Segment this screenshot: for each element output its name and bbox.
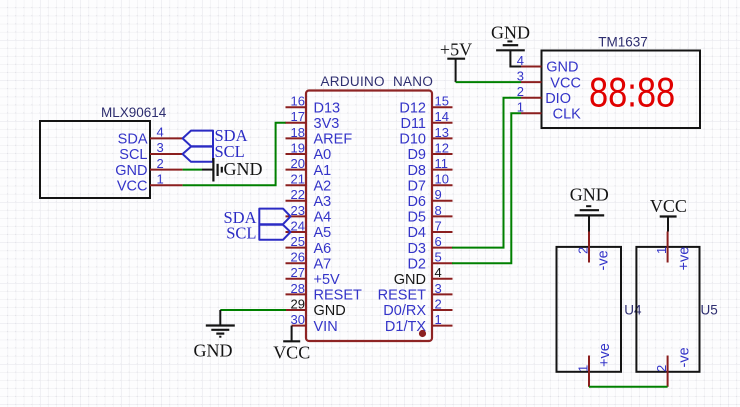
svg-text:2: 2 — [654, 365, 669, 372]
svg-text:-ve: -ve — [677, 347, 693, 367]
svg-text:11: 11 — [435, 156, 449, 171]
svg-text:GND: GND — [491, 23, 530, 43]
svg-text:18: 18 — [291, 125, 305, 140]
svg-text:SCL: SCL — [119, 147, 147, 163]
svg-text:21: 21 — [291, 172, 305, 187]
svg-text:26: 26 — [291, 250, 305, 265]
ground flag GND (above TM1637) — [491, 23, 530, 67]
pin 1 D1/TX of ARDUINO NANO — [385, 312, 453, 335]
svg-text:GND: GND — [314, 303, 346, 319]
svg-text:4: 4 — [435, 265, 442, 280]
svg-text:3: 3 — [435, 281, 442, 296]
svg-text:VCC: VCC — [650, 196, 687, 216]
svg-text:D0/RX: D0/RX — [383, 303, 426, 319]
svg-text:U5: U5 — [701, 303, 718, 318]
net port SCL (Arduino A5) — [226, 224, 290, 243]
pin 3 VCC of TM1637 — [517, 69, 581, 92]
svg-text:22: 22 — [291, 187, 305, 202]
svg-text:30: 30 — [291, 312, 305, 327]
svg-text:D11: D11 — [400, 116, 426, 132]
svg-text:24: 24 — [291, 218, 305, 233]
svg-text:27: 27 — [291, 265, 305, 280]
pin 22 A3 of ARDUINO NANO — [286, 187, 332, 210]
power flag +5V — [440, 40, 472, 83]
svg-text:GND: GND — [194, 341, 233, 361]
pin 17 3V3 of ARDUINO NANO — [286, 109, 340, 132]
svg-text:+ve: +ve — [597, 343, 613, 367]
wire MLX GND pin to ground flag — [183, 169, 202, 171]
svg-text:2: 2 — [435, 296, 442, 311]
svg-text:D12: D12 — [399, 100, 426, 116]
svg-text:MLX90614: MLX90614 — [101, 105, 167, 120]
svg-text:A4: A4 — [314, 210, 332, 226]
svg-text:RESET: RESET — [378, 288, 426, 304]
svg-text:D3: D3 — [407, 241, 426, 257]
svg-text:4: 4 — [517, 53, 524, 68]
pin 25 A6 of ARDUINO NANO — [286, 234, 332, 257]
origin marker dot (Arduino bottom-right) — [419, 330, 426, 337]
svg-text:1: 1 — [654, 247, 669, 254]
pin 1 +ve of U4 (bottom) — [576, 343, 614, 387]
svg-text:3V3: 3V3 — [314, 116, 340, 132]
svg-text:7: 7 — [435, 218, 442, 233]
pin 24 A5 of ARDUINO NANO — [286, 218, 332, 241]
svg-text:D10: D10 — [399, 132, 426, 148]
pin 2 DIO of TM1637 — [517, 84, 571, 107]
svg-text:A2: A2 — [314, 178, 332, 194]
svg-text:RESET: RESET — [314, 288, 362, 304]
pin 2 -ve of U4 (top) — [576, 232, 612, 271]
net port SCL (MLX side) — [183, 142, 245, 162]
svg-text:VIN: VIN — [314, 319, 338, 335]
svg-text:D7: D7 — [407, 178, 426, 194]
svg-text:9: 9 — [435, 187, 442, 202]
svg-text:A0: A0 — [314, 147, 332, 163]
pin 2 GND of MLX90614 — [115, 156, 182, 179]
pin 4 GND of ARDUINO NANO — [394, 265, 453, 288]
ground flag GND (sideways, at MLX pin 2) — [202, 158, 263, 182]
svg-text:D2: D2 — [407, 256, 426, 272]
svg-text:A5: A5 — [314, 225, 332, 241]
pin 7 D4 of ARDUINO NANO — [407, 218, 452, 241]
svg-text:VCC: VCC — [273, 343, 310, 363]
pin 14 D11 of ARDUINO NANO — [400, 109, 452, 132]
svg-text:GND: GND — [394, 272, 426, 288]
svg-text:A3: A3 — [314, 194, 332, 210]
pin 1 +ve of U5 (top) — [654, 232, 693, 271]
IC U? ARDUINO NANO — [306, 74, 433, 341]
svg-text:2: 2 — [576, 247, 591, 254]
svg-text:25: 25 — [291, 234, 305, 249]
svg-text:-ve: -ve — [596, 250, 612, 270]
svg-text:D4: D4 — [407, 225, 426, 241]
svg-text:GND: GND — [224, 159, 263, 179]
net port SDA (MLX side) — [183, 126, 248, 146]
pin 30 VIN of ARDUINO NANO — [291, 312, 338, 335]
svg-text:29: 29 — [291, 296, 305, 311]
pin 6 D3 of ARDUINO NANO — [407, 234, 452, 257]
pin 15 D12 of ARDUINO NANO — [399, 94, 452, 117]
svg-text:SDA: SDA — [118, 132, 148, 148]
svg-text:GND: GND — [570, 185, 609, 205]
svg-text:13: 13 — [435, 125, 449, 140]
svg-text:CLK: CLK — [553, 107, 582, 123]
svg-text:D5: D5 — [407, 210, 426, 226]
pin 20 A1 of ARDUINO NANO — [286, 156, 332, 179]
svg-text:+ve: +ve — [677, 247, 693, 271]
wire TM1637 DIO to Arduino D3 — [452, 98, 521, 248]
svg-text:1: 1 — [435, 312, 442, 327]
ground flag GND (below, at Arduino pin 29) — [194, 310, 235, 361]
svg-text:D8: D8 — [407, 163, 426, 179]
power flag VCC (at Arduino VIN pin 30) — [273, 326, 310, 363]
svg-text:U4: U4 — [624, 303, 642, 318]
svg-text:3: 3 — [517, 69, 524, 84]
pin 3 RESET of ARDUINO NANO — [378, 281, 453, 304]
pin 1 CLK of TM1637 — [517, 100, 581, 123]
net port SDA (Arduino A4) — [223, 208, 290, 227]
svg-text:20: 20 — [291, 156, 305, 171]
svg-text:1: 1 — [576, 365, 591, 372]
svg-text:AREF: AREF — [314, 132, 353, 148]
IC MLX90614 — [40, 105, 167, 198]
pin 18 AREF of ARDUINO NANO — [286, 125, 353, 148]
svg-text:4: 4 — [157, 125, 164, 140]
svg-text:19: 19 — [291, 140, 305, 155]
pin 4 GND of TM1637 — [517, 53, 579, 76]
svg-text:A6: A6 — [314, 241, 332, 257]
IC TM1637 display — [542, 35, 701, 129]
pin 23 A4 of ARDUINO NANO — [286, 203, 332, 226]
pin 16 D13 of ARDUINO NANO — [286, 94, 341, 117]
svg-text:GND: GND — [546, 60, 578, 76]
wire MLX VCC to Arduino 3V3 — [183, 123, 286, 185]
pin 3 SCL of MLX90614 — [119, 140, 182, 163]
wire Arduino GND pin29 to ground — [220, 309, 286, 311]
pin 21 A2 of ARDUINO NANO — [286, 172, 332, 195]
svg-text:12: 12 — [435, 140, 449, 155]
svg-text:1: 1 — [157, 171, 164, 186]
svg-text:16: 16 — [291, 94, 305, 109]
wire U4 +ve to U5 -ve — [589, 386, 668, 388]
svg-text:+5V: +5V — [314, 272, 341, 288]
pin 27 +5V of ARDUINO NANO — [286, 265, 341, 288]
svg-text:SCL: SCL — [226, 224, 256, 243]
battery U5 — [636, 247, 717, 372]
pin 2 -ve of U5 (bottom) — [654, 347, 693, 386]
svg-text:ARDUINO NANO: ARDUINO NANO — [321, 74, 434, 89]
svg-text:88:88: 88:88 — [589, 70, 675, 117]
svg-text:3: 3 — [157, 140, 164, 155]
pin 9 D6 of ARDUINO NANO — [407, 187, 452, 210]
svg-text:D6: D6 — [407, 194, 426, 210]
svg-text:TM1637: TM1637 — [598, 35, 648, 50]
svg-text:2: 2 — [157, 156, 164, 171]
svg-text:10: 10 — [435, 172, 449, 187]
svg-text:5: 5 — [435, 250, 442, 265]
svg-text:15: 15 — [435, 94, 449, 109]
pin 12 D9 of ARDUINO NANO — [407, 140, 452, 163]
pin 11 D8 of ARDUINO NANO — [407, 156, 452, 179]
svg-text:DIO: DIO — [545, 91, 571, 107]
power flag VCC (above battery U5) — [650, 196, 687, 232]
svg-text:17: 17 — [291, 109, 305, 124]
svg-text:23: 23 — [291, 203, 305, 218]
pin 2 D0/RX of ARDUINO NANO — [383, 296, 452, 319]
ground flag GND (above battery U4) — [570, 185, 609, 232]
svg-text:14: 14 — [435, 109, 449, 124]
pin 28 RESET of ARDUINO NANO — [286, 281, 362, 304]
wire TM1637 CLK to Arduino D2 — [452, 113, 521, 263]
pin 4 SDA of MLX90614 — [118, 125, 183, 148]
svg-text:GND: GND — [115, 163, 147, 179]
pin 1 VCC of MLX90614 — [117, 171, 183, 194]
svg-text:6: 6 — [435, 234, 442, 249]
pin 10 D7 of ARDUINO NANO — [407, 172, 452, 195]
svg-text:A7: A7 — [314, 256, 332, 272]
svg-text:VCC: VCC — [550, 75, 581, 91]
pin 26 A7 of ARDUINO NANO — [286, 250, 332, 273]
wire +5V to TM1637 VCC — [456, 81, 521, 83]
pin 29 GND of ARDUINO NANO — [286, 296, 346, 319]
pin 13 D10 of ARDUINO NANO — [399, 125, 452, 148]
pin 19 A0 of ARDUINO NANO — [286, 140, 332, 163]
svg-text:A1: A1 — [314, 163, 332, 179]
pin 8 D5 of ARDUINO NANO — [407, 203, 452, 226]
svg-text:+5V: +5V — [440, 40, 472, 60]
svg-text:28: 28 — [291, 281, 305, 296]
pin 5 D2 of ARDUINO NANO — [407, 250, 452, 273]
battery U4 — [557, 247, 643, 372]
svg-text:VCC: VCC — [117, 178, 148, 194]
svg-text:D9: D9 — [407, 147, 426, 163]
svg-text:D13: D13 — [314, 100, 341, 116]
svg-text:8: 8 — [435, 203, 442, 218]
